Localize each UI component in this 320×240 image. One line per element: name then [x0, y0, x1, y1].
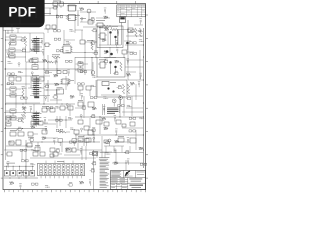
filler part 139	[124, 150, 129, 154]
filler part 153	[19, 183, 22, 189]
filler part 8	[104, 16, 108, 19]
resistor R20	[58, 131, 70, 133]
filler part 83	[103, 97, 108, 99]
filler part 115	[90, 128, 95, 132]
filler part 1	[52, 5, 57, 9]
filler part 47	[78, 61, 83, 63]
transistor Q3	[114, 36, 116, 45]
filler part 113	[70, 128, 75, 130]
filler part 35	[66, 51, 71, 53]
filler part 141	[7, 162, 10, 168]
filler part 29	[139, 40, 144, 42]
transistor Q8	[9, 140, 21, 145]
filler part 74	[130, 82, 134, 85]
filler part 32	[30, 49, 34, 52]
filler part 133	[55, 148, 60, 152]
label text R3	[44, 12, 51, 15]
label text	[99, 59, 106, 62]
filler part 116	[104, 127, 108, 130]
transformer T1	[102, 82, 116, 86]
resistor R5	[100, 25, 118, 40]
wire	[30, 139, 100, 146]
filler part 41	[7, 61, 12, 63]
capacitor C1 pair	[53, 1, 64, 8]
capacitor C7	[57, 71, 67, 74]
filler part 127	[104, 140, 109, 144]
filler part 54	[31, 72, 33, 76]
capacitor C24	[116, 120, 126, 127]
filler part 45	[54, 58, 57, 64]
filler part 75	[138, 81, 141, 87]
filler part 107	[139, 117, 144, 119]
filler part 158	[80, 181, 84, 184]
filler part 4	[56, 16, 62, 18]
relay K3	[28, 58, 38, 69]
driver U5	[98, 33, 107, 39]
filler part 15	[117, 30, 120, 36]
resistor R8	[139, 28, 141, 37]
border zone tick marks	[1, 1, 148, 192]
filler part 9	[139, 18, 142, 24]
transistor Q7	[114, 66, 116, 74]
filler part 147	[127, 159, 130, 165]
filler part 22	[54, 38, 61, 40]
wire	[99, 29, 121, 45]
relay K2	[6, 48, 22, 58]
filler part 119	[8, 141, 13, 143]
capacitor C10	[42, 106, 55, 112]
filler part 105	[114, 115, 117, 121]
filler part 152	[10, 182, 14, 185]
input jack J1	[87, 9, 91, 20]
filler part 71	[91, 85, 96, 87]
filler part 67	[44, 84, 49, 88]
filler part 42	[18, 63, 20, 67]
connector J4 chain	[32, 111, 42, 127]
filler part 61	[113, 71, 118, 75]
filler part 92	[92, 107, 96, 110]
filler part 73	[117, 85, 122, 89]
filler part 97	[17, 118, 22, 122]
filler part 126	[93, 137, 95, 141]
heatsink Q11	[102, 104, 119, 115]
filler part 68	[55, 83, 59, 86]
IC U9	[88, 128, 94, 142]
wire	[75, 57, 97, 76]
filler part 150	[30, 170, 32, 174]
capacitor C28	[53, 152, 62, 156]
filler part 111	[45, 127, 48, 133]
capacitor C19	[66, 148, 76, 152]
filler part 20	[31, 40, 35, 43]
filler part 157	[67, 182, 72, 186]
filler part 30	[7, 53, 9, 57]
filler part 31	[21, 48, 26, 52]
filler part 114	[81, 128, 83, 132]
relay K8	[6, 116, 12, 126]
filler part 87	[29, 106, 32, 112]
filler part 56	[54, 74, 58, 77]
title block	[111, 171, 146, 190]
filler part 91	[81, 105, 86, 109]
filler part 102	[80, 115, 82, 119]
capacitor C17	[35, 145, 40, 151]
wire	[95, 30, 98, 58]
filler part 39	[116, 47, 119, 53]
filler part 106	[129, 117, 136, 119]
filler part 89	[55, 106, 60, 108]
filler part 5	[66, 17, 71, 19]
connector J3 chain	[32, 77, 42, 99]
filler part 7	[89, 17, 94, 21]
filler part 2	[80, 8, 84, 11]
filler part 136	[90, 152, 96, 154]
wire	[142, 28, 145, 168]
filler part 90	[66, 104, 68, 108]
filler part 137	[105, 152, 110, 154]
filler part 135	[80, 149, 83, 155]
wire	[44, 6, 80, 28]
resistor R11	[46, 61, 58, 63]
wire	[75, 134, 144, 137]
relay K4	[76, 62, 89, 72]
wire	[44, 71, 60, 103]
filler part 27	[115, 40, 118, 46]
label text U2	[67, 5, 77, 8]
filler part 64	[7, 83, 14, 85]
filler part 34	[56, 50, 63, 52]
filler part 124	[69, 141, 76, 143]
filler part 99	[44, 118, 47, 124]
resistor R21	[122, 84, 129, 94]
filler part 40	[130, 52, 137, 54]
relay K7	[6, 109, 17, 120]
filler part 52	[8, 73, 14, 75]
filler part 98	[31, 116, 35, 119]
filler part 69	[66, 80, 69, 86]
filler part 58	[80, 71, 87, 73]
filler part 57	[67, 70, 70, 76]
wire	[4, 8, 143, 163]
filler part 17	[138, 30, 143, 32]
filler part 79	[52, 94, 57, 98]
filler part 49	[103, 59, 108, 63]
filler part 66	[34, 86, 36, 90]
filler part 65	[22, 86, 27, 88]
IC U10	[93, 150, 98, 189]
filler part 76	[21, 97, 28, 99]
tube V1	[120, 17, 129, 51]
filler part 130	[20, 149, 27, 151]
resistor R18	[28, 132, 38, 138]
filler part 131	[30, 149, 35, 151]
filler part 55	[44, 70, 49, 74]
label text	[99, 27, 108, 30]
filler part 121	[29, 137, 34, 141]
capacitor C18	[50, 148, 55, 157]
filler part 46	[66, 60, 73, 62]
op-amp U7	[61, 79, 74, 84]
filler part 62	[126, 73, 130, 76]
resistor R4	[80, 18, 95, 24]
filler part 85	[126, 96, 131, 100]
capacitor C13	[26, 140, 32, 178]
capacitor C23	[78, 120, 89, 130]
filler part 70	[78, 83, 85, 85]
filler part 112	[56, 129, 63, 131]
transistor Q4	[106, 50, 109, 53]
wire	[46, 161, 73, 164]
capacitor C12	[10, 130, 24, 136]
transistor Q9	[107, 87, 109, 89]
svg-text:PDF: PDF	[8, 5, 36, 20]
filler part 50	[115, 60, 119, 63]
filler part 10	[54, 30, 60, 32]
company logo	[124, 171, 132, 177]
filler part 26	[102, 39, 106, 42]
filler part 19	[20, 38, 25, 42]
filler part 128	[115, 140, 119, 143]
filler part 21	[41, 38, 44, 44]
resistor R10	[52, 55, 60, 59]
filler part 145	[91, 161, 96, 165]
transistor Q6	[109, 61, 111, 74]
fuse F1	[108, 136, 136, 146]
filler part 3	[104, 8, 107, 14]
filler part 44	[43, 59, 47, 62]
filler part 80	[70, 95, 74, 98]
capacitor C6	[44, 43, 51, 47]
border frame	[3, 4, 146, 190]
filler part 51	[127, 59, 129, 65]
PDF badge	[0, 0, 45, 27]
switch S1 bank	[4, 150, 35, 176]
wire	[3, 28, 20, 33]
filler part 59	[92, 75, 97, 77]
filler part 81	[80, 93, 83, 99]
filler part 6	[81, 18, 83, 22]
filler part 109	[16, 127, 21, 131]
capacitor C9	[32, 75, 44, 81]
transistor Q2	[109, 31, 111, 45]
resistor R17	[21, 114, 23, 123]
capacitor C26	[78, 136, 91, 142]
wire	[75, 116, 144, 119]
resistor R19	[31, 121, 48, 125]
filler part 13	[91, 28, 96, 32]
wire	[82, 146, 86, 160]
capacitor C20	[78, 86, 91, 96]
capacitor C27	[33, 150, 45, 156]
filler part 86	[22, 106, 26, 109]
wire	[48, 116, 72, 128]
filler part 77	[34, 95, 39, 97]
filler part 78	[45, 96, 47, 100]
filler part 94	[118, 105, 125, 107]
resistor R7	[135, 28, 137, 37]
filler part 104	[102, 117, 106, 120]
wire	[6, 103, 75, 106]
filler part 110	[31, 126, 35, 129]
transistor Q5	[104, 53, 116, 58]
filler part 118	[129, 130, 136, 132]
filler part 140	[139, 147, 143, 150]
capacitor C22	[84, 96, 94, 116]
capacitor C21	[78, 100, 83, 106]
driver U6	[98, 62, 107, 68]
filler part 38	[104, 50, 108, 53]
filler part 43	[28, 58, 33, 62]
filler part 14	[104, 28, 108, 31]
revision history table	[117, 5, 146, 17]
relay K5	[6, 87, 22, 97]
amplifier block outline	[97, 26, 123, 48]
capacitor C11	[60, 106, 73, 110]
wire	[4, 177, 38, 180]
filler part 148	[140, 163, 147, 165]
filler part 33	[42, 49, 45, 55]
filler part 123	[53, 138, 56, 144]
resistor R12	[80, 40, 96, 44]
filler part 138	[114, 149, 116, 153]
filler part 142	[22, 160, 29, 162]
filler part 143	[30, 163, 35, 165]
filler part 122	[42, 137, 46, 140]
transistor Q12	[112, 96, 122, 107]
wire	[6, 102, 40, 104]
capacitor C4	[128, 28, 133, 33]
filler part 16	[128, 30, 135, 32]
power block outline	[97, 80, 127, 97]
filler part 88	[46, 107, 52, 109]
resistor R15	[22, 88, 24, 98]
resistor R6	[110, 28, 128, 30]
resistor R9	[24, 36, 26, 62]
resistor R16	[23, 108, 25, 117]
filler part 18	[9, 42, 11, 46]
filler part 146	[114, 162, 118, 165]
transistor Q1	[124, 41, 131, 50]
resistor R13	[91, 42, 93, 50]
wire	[125, 45, 144, 67]
filler part 11	[69, 29, 74, 31]
filler part 37	[93, 51, 98, 55]
filler part 100	[56, 119, 62, 121]
filler part 103	[90, 114, 95, 118]
filler part 101	[68, 117, 73, 119]
resistor R14	[120, 62, 122, 71]
filler part 25	[90, 40, 95, 44]
capacitor C15	[42, 128, 47, 134]
filler part 151	[90, 168, 95, 172]
diode D2	[102, 136, 108, 158]
filler part 159	[89, 180, 92, 186]
filler part 155	[45, 185, 50, 187]
wire	[76, 146, 144, 170]
capacitor C16	[74, 130, 79, 140]
amplifier block outline	[97, 58, 125, 78]
filler part 93	[103, 106, 106, 112]
transistor Q10	[101, 90, 120, 95]
wire	[4, 30, 7, 150]
wire	[4, 113, 42, 129]
op-amp U2B	[67, 15, 77, 21]
notes text block	[99, 157, 110, 187]
filler part 149	[20, 171, 25, 173]
connector J2 chain	[32, 36, 42, 54]
filler part 82	[90, 96, 97, 98]
output jack J7	[91, 62, 95, 74]
filler part 63	[139, 73, 142, 79]
op-amp U4	[62, 44, 73, 53]
op-amp U2A	[67, 5, 77, 11]
capacitor C8	[9, 75, 21, 81]
filler part 154	[31, 183, 37, 185]
wire	[83, 26, 100, 29]
capacitor C2	[44, 25, 58, 33]
rectifier D1	[96, 116, 109, 134]
filler part 53	[18, 71, 23, 73]
filler part 117	[115, 129, 118, 135]
capacitor C14	[6, 152, 13, 156]
label text U3	[96, 19, 105, 22]
filler part 28	[130, 42, 137, 44]
IC U3	[95, 23, 105, 27]
filler part 23	[66, 41, 71, 43]
relay K1	[6, 35, 23, 45]
filler part 95	[127, 105, 132, 107]
IC U11	[46, 80, 64, 96]
wire	[30, 33, 78, 69]
filler part 125	[78, 140, 83, 142]
capacitor C5	[122, 50, 127, 58]
capacitor C25	[130, 122, 136, 150]
filler part 134	[66, 148, 70, 151]
filler part 129	[127, 137, 130, 143]
power connector J6	[38, 161, 85, 178]
wire	[72, 51, 98, 54]
wire	[94, 152, 112, 158]
